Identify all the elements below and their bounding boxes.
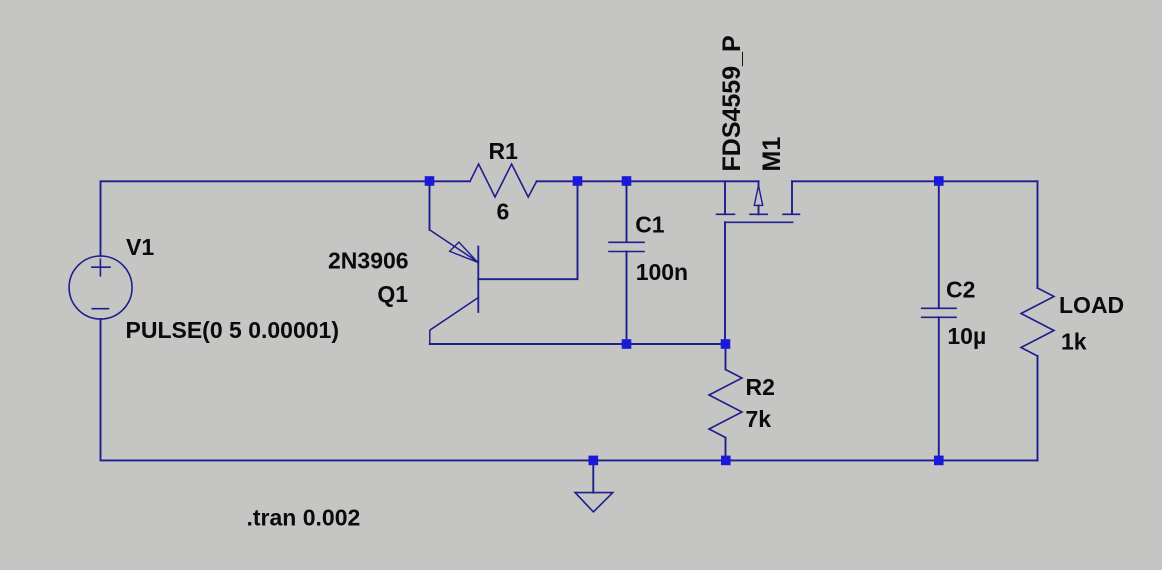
wire mid rail [430, 343, 726, 345]
transistor Q1 emitter diagonal [430, 230, 479, 262]
wire right rail top [1037, 181, 1039, 288]
svg-text:6: 6 [497, 199, 510, 225]
svg-text:V1: V1 [126, 234, 154, 260]
capacitor C1 [626, 181, 628, 242]
mosfet M1 left contact [724, 181, 726, 213]
svg-text:10µ: 10µ [947, 323, 986, 349]
svg-text:C2: C2 [946, 277, 975, 303]
mosfet M1 right contact [791, 181, 793, 213]
node I (C2 bottom) [934, 456, 944, 466]
ground [592, 460, 594, 492]
wire top rail middle [537, 180, 759, 182]
mosfet M1 source stub and arrow [758, 181, 760, 185]
wire top rail left [101, 181, 471, 256]
node D (C2 top) [934, 176, 944, 186]
svg-text:7k: 7k [746, 406, 772, 432]
capacitor C2 [938, 181, 940, 308]
resistor R1 [470, 164, 537, 197]
wire top rail right [792, 180, 1038, 182]
svg-text:PULSE(0 5 0.00001): PULSE(0 5 0.00001) [126, 317, 340, 343]
svg-text:R1: R1 [489, 138, 519, 164]
svg-text:M1: M1 [758, 137, 786, 172]
transistor Q1 base bar [477, 247, 479, 313]
resistor LOAD [1021, 288, 1054, 356]
node A (R1 left) [425, 176, 435, 186]
wire right rail bottom [1037, 356, 1039, 460]
svg-text:FDS4559_P: FDS4559_P [718, 35, 746, 171]
resistor R2 [725, 344, 727, 370]
wire V1 bottom [101, 319, 1038, 460]
svg-text:C1: C1 [635, 212, 665, 238]
node E (C1 bottom) [622, 339, 632, 349]
svg-text:R2: R2 [746, 374, 775, 400]
node F (R2 top / gate) [721, 339, 731, 349]
svg-text:1k: 1k [1061, 328, 1087, 354]
mosfet M1 gate bar [725, 221, 793, 223]
svg-text:.tran 0.002: .tran 0.002 [247, 505, 361, 531]
node H (R2 bottom) [721, 456, 731, 466]
node G (ground) [589, 456, 599, 466]
transistor Q1 collector [430, 298, 479, 345]
svg-text:Q1: Q1 [377, 281, 408, 307]
svg-text:100n: 100n [636, 259, 688, 285]
wire M1 gate to R2 [724, 222, 726, 344]
node B (R1 right / base) [573, 176, 583, 186]
node C (C1 top) [622, 176, 632, 186]
voltage source V1 [69, 256, 132, 319]
transistor Q1 emitter arrow [450, 242, 478, 262]
svg-text:LOAD: LOAD [1059, 292, 1124, 318]
svg-text:2N3906: 2N3906 [328, 248, 409, 274]
transistor Q1 emitter wire [429, 181, 431, 230]
transistor Q1 base lead [478, 181, 577, 279]
